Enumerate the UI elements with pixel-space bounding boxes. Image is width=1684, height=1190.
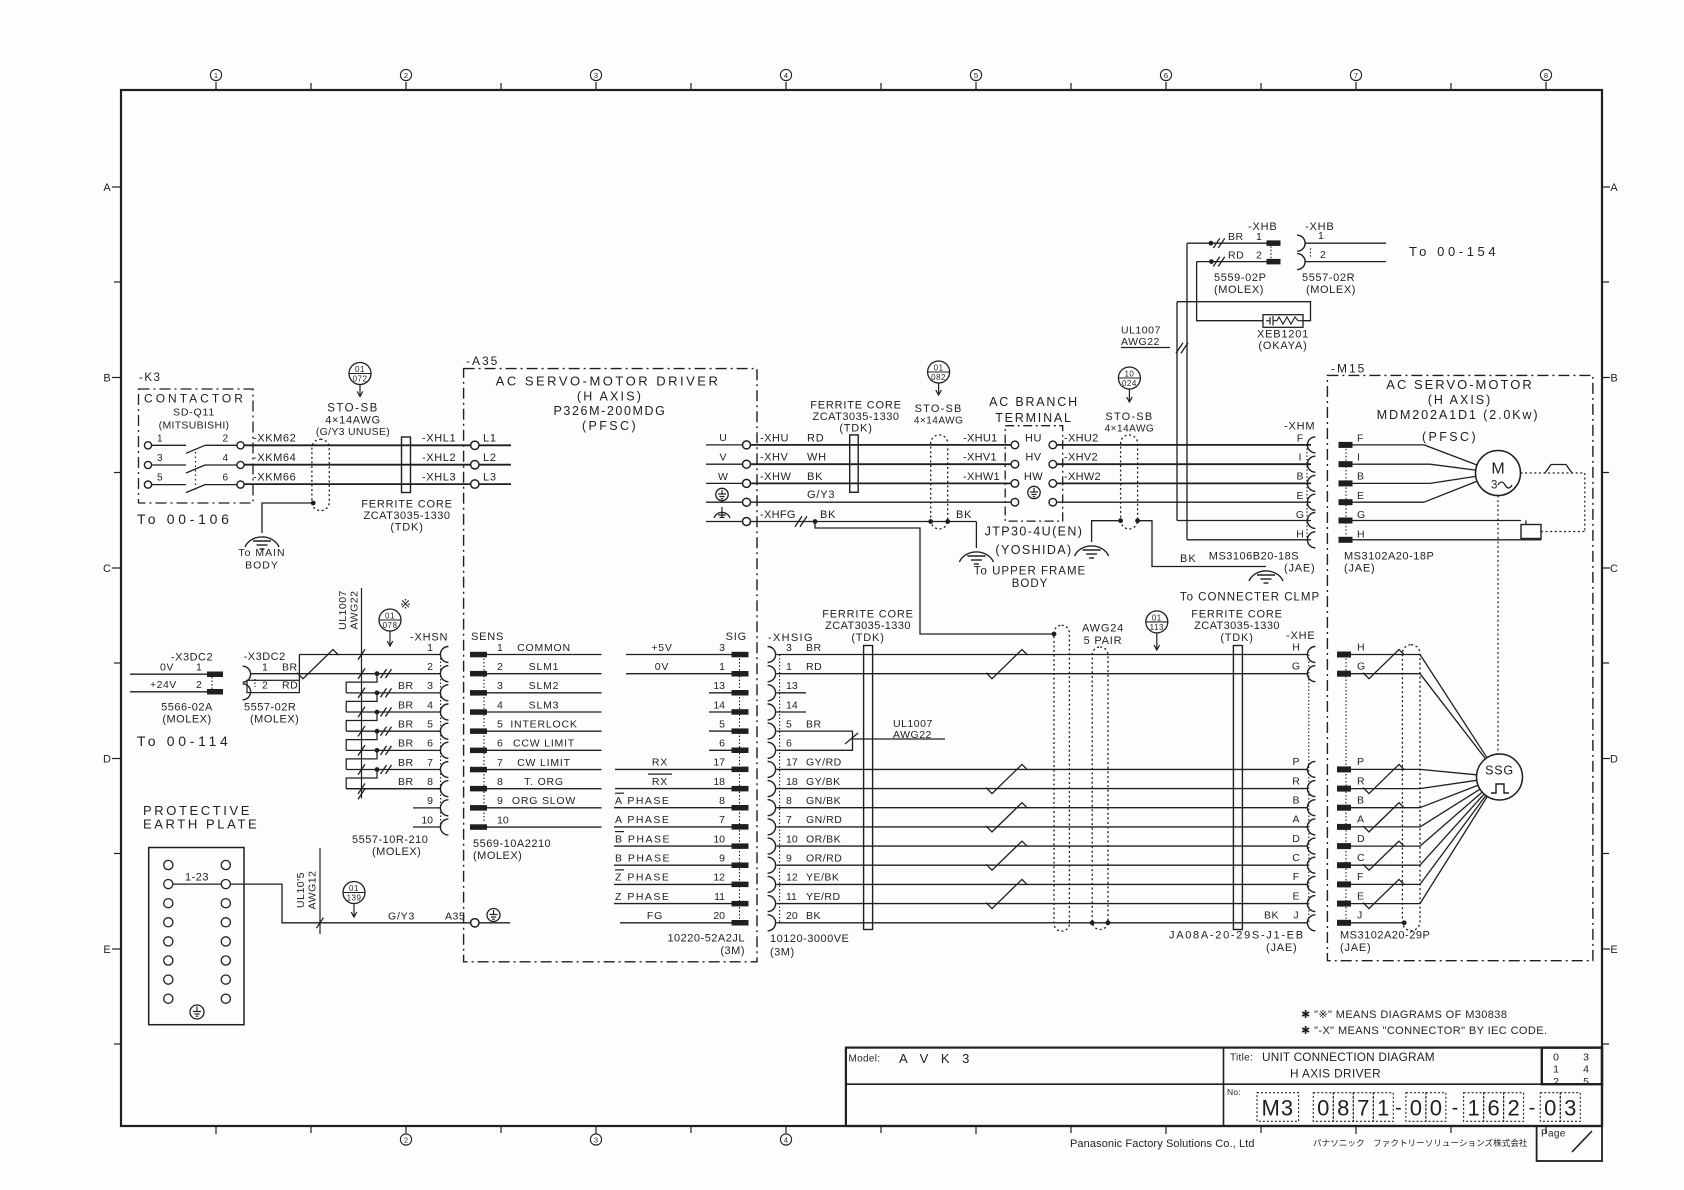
svg-text:5557-10R-210: 5557-10R-210 bbox=[352, 834, 428, 846]
svg-text:14: 14 bbox=[786, 699, 798, 711]
svg-text:7: 7 bbox=[719, 814, 725, 826]
svg-text:11: 11 bbox=[786, 891, 797, 903]
svg-text:Z PHASE: Z PHASE bbox=[615, 872, 670, 884]
svg-text:AWG22: AWG22 bbox=[349, 591, 361, 630]
svg-text:-XHW2: -XHW2 bbox=[1064, 471, 1101, 483]
svg-text:(MOLEX): (MOLEX) bbox=[372, 846, 421, 858]
svg-text:6: 6 bbox=[719, 738, 725, 750]
svg-text:RD: RD bbox=[1228, 249, 1244, 261]
svg-text:5557-02R: 5557-02R bbox=[1302, 272, 1355, 284]
svg-text:C: C bbox=[1292, 852, 1300, 864]
svg-text:E: E bbox=[103, 944, 110, 956]
svg-text:BR: BR bbox=[398, 680, 414, 692]
svg-text:A V K 3: A V K 3 bbox=[899, 1051, 974, 1066]
svg-text:BK: BK bbox=[820, 509, 836, 521]
svg-text:(YOSHIDA): (YOSHIDA) bbox=[995, 543, 1072, 557]
svg-text:※: ※ bbox=[400, 597, 411, 612]
svg-text:BK: BK bbox=[956, 509, 972, 521]
svg-text:10: 10 bbox=[421, 814, 433, 826]
svg-text:2: 2 bbox=[404, 71, 408, 80]
svg-text:1: 1 bbox=[1467, 1095, 1479, 1120]
svg-text:H: H bbox=[1357, 528, 1365, 540]
svg-text:3: 3 bbox=[786, 642, 792, 654]
svg-text:E: E bbox=[1292, 890, 1299, 902]
svg-text:8: 8 bbox=[719, 795, 725, 807]
svg-text:G: G bbox=[1292, 661, 1300, 673]
svg-text:3: 3 bbox=[497, 680, 503, 692]
svg-text:-XKM64: -XKM64 bbox=[253, 452, 296, 464]
svg-text:-XHU2: -XHU2 bbox=[1064, 432, 1099, 444]
svg-text:P: P bbox=[1357, 756, 1364, 768]
svg-text:024: 024 bbox=[1122, 379, 1137, 388]
svg-text:9: 9 bbox=[497, 795, 503, 807]
svg-text:BR: BR bbox=[398, 719, 414, 731]
svg-text:1: 1 bbox=[157, 433, 163, 444]
svg-text:UL1007: UL1007 bbox=[1121, 324, 1161, 336]
svg-text:17: 17 bbox=[713, 757, 725, 769]
svg-text:AC SERVO-MOTOR DRIVER: AC SERVO-MOTOR DRIVER bbox=[496, 374, 721, 389]
svg-text:-XKM62: -XKM62 bbox=[253, 433, 296, 445]
svg-text:14: 14 bbox=[713, 699, 725, 711]
svg-text:17: 17 bbox=[786, 757, 798, 769]
svg-text:B: B bbox=[1357, 795, 1364, 807]
svg-text:TERMINAL: TERMINAL bbox=[995, 411, 1073, 425]
svg-text:5566-02A: 5566-02A bbox=[161, 702, 213, 714]
svg-text:-XHM: -XHM bbox=[1284, 421, 1315, 433]
svg-text:J: J bbox=[1357, 910, 1362, 922]
svg-text:ORG SLOW: ORG SLOW bbox=[512, 795, 576, 807]
svg-text:H: H bbox=[1292, 641, 1300, 653]
svg-text:B PHASE: B PHASE bbox=[615, 833, 671, 845]
svg-text:BR: BR bbox=[1228, 231, 1244, 243]
svg-text:BK: BK bbox=[1264, 910, 1279, 922]
svg-text:R: R bbox=[1357, 775, 1365, 787]
svg-text:ZCAT3035-1330: ZCAT3035-1330 bbox=[363, 510, 450, 522]
svg-text:2: 2 bbox=[1507, 1095, 1519, 1120]
svg-text:8: 8 bbox=[1337, 1095, 1349, 1120]
svg-text:7: 7 bbox=[1354, 71, 1358, 80]
svg-text:G: G bbox=[1357, 661, 1365, 673]
svg-text:OR/RD: OR/RD bbox=[806, 853, 842, 865]
svg-text:4: 4 bbox=[497, 699, 503, 711]
svg-text:4: 4 bbox=[784, 1136, 788, 1145]
svg-text:5557-02R: 5557-02R bbox=[244, 702, 296, 714]
svg-text:-XHFG: -XHFG bbox=[760, 509, 796, 521]
svg-text:A35: A35 bbox=[445, 910, 465, 922]
svg-text:082: 082 bbox=[931, 373, 946, 382]
svg-text:+24V: +24V bbox=[150, 679, 177, 691]
svg-text:AWG12: AWG12 bbox=[307, 871, 319, 910]
svg-text:BK: BK bbox=[807, 471, 823, 483]
svg-text:0V: 0V bbox=[655, 661, 669, 673]
svg-text:T. ORG: T. ORG bbox=[524, 776, 564, 788]
svg-text:9: 9 bbox=[719, 853, 725, 865]
svg-text:W: W bbox=[718, 471, 728, 483]
svg-text:10: 10 bbox=[786, 833, 798, 845]
svg-text:5: 5 bbox=[719, 718, 725, 730]
svg-text:P: P bbox=[1292, 756, 1299, 768]
svg-text:0V: 0V bbox=[160, 661, 174, 673]
svg-text:-XHV: -XHV bbox=[760, 452, 788, 464]
svg-text:RD: RD bbox=[807, 432, 825, 444]
svg-text:(MOLEX): (MOLEX) bbox=[162, 714, 211, 726]
svg-text:L2: L2 bbox=[483, 452, 497, 464]
svg-text:-XHB: -XHB bbox=[1248, 221, 1277, 233]
svg-text:0: 0 bbox=[1410, 1095, 1422, 1120]
svg-text:5 PAIR: 5 PAIR bbox=[1084, 635, 1123, 647]
svg-text:B: B bbox=[103, 373, 110, 385]
svg-text:(H AXIS): (H AXIS) bbox=[577, 390, 643, 404]
svg-text:3: 3 bbox=[719, 642, 725, 654]
svg-text:GY/RD: GY/RD bbox=[806, 757, 842, 769]
svg-text:UL1007: UL1007 bbox=[337, 590, 349, 630]
svg-text:YE/BK: YE/BK bbox=[806, 872, 839, 884]
svg-text:E: E bbox=[1357, 890, 1364, 902]
svg-text:8: 8 bbox=[786, 795, 792, 807]
svg-text:MS3102A20-18P: MS3102A20-18P bbox=[1344, 551, 1434, 563]
svg-text:UNIT CONNECTION DIAGRAM: UNIT CONNECTION DIAGRAM bbox=[1262, 1050, 1435, 1064]
svg-text:20: 20 bbox=[713, 910, 725, 922]
svg-text:3: 3 bbox=[1583, 1051, 1589, 1063]
svg-text:078: 078 bbox=[383, 621, 398, 630]
svg-text:D: D bbox=[1610, 754, 1618, 766]
svg-text:A: A bbox=[1357, 814, 1364, 826]
svg-text:6: 6 bbox=[786, 738, 792, 750]
svg-text:STO-SB: STO-SB bbox=[915, 403, 963, 415]
svg-text:9: 9 bbox=[427, 795, 433, 807]
svg-text:STO-SB: STO-SB bbox=[1105, 411, 1153, 423]
svg-text:(H AXIS): (H AXIS) bbox=[1428, 393, 1493, 407]
svg-text:(3M): (3M) bbox=[770, 947, 795, 959]
svg-text:5: 5 bbox=[497, 719, 503, 731]
svg-text:-: - bbox=[1452, 1097, 1459, 1119]
svg-text:J: J bbox=[1293, 910, 1298, 922]
svg-text:(MOLEX): (MOLEX) bbox=[1214, 284, 1264, 296]
svg-text:4: 4 bbox=[427, 699, 433, 711]
svg-text:1: 1 bbox=[196, 661, 202, 673]
svg-text:EARTH PLATE: EARTH PLATE bbox=[143, 817, 259, 832]
svg-text:JA08A-20-29S-J1-EB: JA08A-20-29S-J1-EB bbox=[1169, 930, 1305, 942]
svg-text:3: 3 bbox=[1491, 480, 1497, 492]
svg-text:FERRITE CORE: FERRITE CORE bbox=[810, 400, 902, 412]
svg-text:1: 1 bbox=[497, 642, 503, 654]
svg-text:6: 6 bbox=[497, 738, 503, 750]
svg-text:4: 4 bbox=[222, 453, 228, 464]
svg-text:G: G bbox=[1357, 509, 1365, 521]
svg-text:2: 2 bbox=[1256, 249, 1262, 261]
svg-text:B: B bbox=[1292, 795, 1299, 807]
svg-text:10: 10 bbox=[497, 814, 509, 826]
svg-text:HV: HV bbox=[1025, 452, 1041, 464]
svg-text:YE/RD: YE/RD bbox=[806, 891, 841, 903]
svg-text:139: 139 bbox=[347, 893, 362, 902]
svg-text:2: 2 bbox=[404, 1136, 408, 1145]
svg-text:A PHASE: A PHASE bbox=[615, 814, 670, 826]
svg-text:D: D bbox=[103, 754, 111, 766]
svg-text:GN/BK: GN/BK bbox=[806, 795, 841, 807]
svg-text:AWG22: AWG22 bbox=[893, 729, 932, 741]
svg-text:A: A bbox=[103, 182, 111, 194]
svg-text:SLM2: SLM2 bbox=[529, 680, 560, 692]
svg-text:WH: WH bbox=[807, 452, 827, 464]
svg-text:ZCAT3035-1330: ZCAT3035-1330 bbox=[825, 620, 911, 632]
svg-text:18: 18 bbox=[713, 776, 725, 788]
svg-text:+5V: +5V bbox=[651, 642, 672, 654]
svg-text:7: 7 bbox=[786, 814, 792, 826]
svg-text:20: 20 bbox=[786, 910, 798, 922]
svg-text:7: 7 bbox=[427, 757, 433, 769]
svg-text:11: 11 bbox=[714, 891, 725, 903]
svg-text:1-23: 1-23 bbox=[185, 872, 209, 884]
svg-text:2: 2 bbox=[222, 433, 228, 444]
svg-text:AWG22: AWG22 bbox=[1121, 336, 1160, 348]
svg-text:9: 9 bbox=[786, 853, 792, 865]
svg-text:C: C bbox=[103, 563, 111, 575]
svg-text:SIG: SIG bbox=[726, 631, 747, 643]
svg-text:(TDK): (TDK) bbox=[1220, 632, 1253, 644]
svg-text:RD: RD bbox=[282, 679, 298, 691]
svg-text:-XHL1: -XHL1 bbox=[422, 433, 456, 445]
svg-text:(MOLEX): (MOLEX) bbox=[1306, 284, 1356, 296]
svg-text:(TDK): (TDK) bbox=[839, 423, 872, 435]
svg-text:HU: HU bbox=[1025, 432, 1042, 444]
svg-text:6: 6 bbox=[427, 738, 433, 750]
svg-text:0: 0 bbox=[1430, 1095, 1442, 1120]
svg-text:✱ "※" MEANS DIAGRAMS OF M30838: ✱ "※" MEANS DIAGRAMS OF M30838 bbox=[1301, 1009, 1507, 1021]
svg-text:-M15: -M15 bbox=[1331, 361, 1366, 375]
svg-text:(TDK): (TDK) bbox=[851, 632, 884, 644]
svg-text:-XHW1: -XHW1 bbox=[963, 471, 1000, 483]
svg-text:5: 5 bbox=[786, 718, 792, 730]
svg-text:BR: BR bbox=[398, 757, 414, 769]
svg-text:1: 1 bbox=[1377, 1095, 1389, 1120]
svg-text:072: 072 bbox=[353, 374, 368, 383]
svg-text:-XHL3: -XHL3 bbox=[422, 472, 456, 484]
svg-text:To 00-114: To 00-114 bbox=[137, 733, 232, 749]
svg-text:7: 7 bbox=[1357, 1095, 1369, 1120]
svg-text:1: 1 bbox=[719, 661, 725, 673]
svg-text:G/Y3: G/Y3 bbox=[807, 489, 835, 501]
svg-text:-XHW: -XHW bbox=[760, 471, 791, 483]
svg-text:To MAIN: To MAIN bbox=[238, 547, 285, 559]
svg-text:10: 10 bbox=[713, 833, 725, 845]
svg-text:1: 1 bbox=[1256, 231, 1262, 243]
svg-text:D: D bbox=[1292, 833, 1300, 845]
svg-text:SSG: SSG bbox=[1485, 764, 1514, 778]
svg-text:8: 8 bbox=[427, 776, 433, 788]
svg-text:OR/BK: OR/BK bbox=[806, 833, 841, 845]
svg-text:(PFSC): (PFSC) bbox=[582, 419, 638, 433]
svg-text:01: 01 bbox=[1152, 613, 1162, 622]
svg-text:(JAE): (JAE) bbox=[1266, 942, 1298, 954]
svg-text:10: 10 bbox=[1124, 369, 1134, 378]
svg-text:M: M bbox=[1491, 460, 1504, 477]
svg-text:(MOLEX): (MOLEX) bbox=[473, 850, 522, 862]
svg-text:JTP30-4U(EN): JTP30-4U(EN) bbox=[985, 525, 1084, 539]
svg-text:COMMON: COMMON bbox=[517, 642, 571, 654]
svg-text:0: 0 bbox=[1553, 1051, 1559, 1063]
svg-text:RX: RX bbox=[652, 757, 668, 769]
svg-text:BR: BR bbox=[806, 642, 822, 654]
svg-text:L3: L3 bbox=[483, 472, 497, 484]
svg-text:H AXIS DRIVER: H AXIS DRIVER bbox=[1290, 1067, 1381, 1081]
svg-text:I: I bbox=[1357, 452, 1360, 464]
svg-text:To UPPER FRAME: To UPPER FRAME bbox=[974, 566, 1086, 578]
svg-text:5: 5 bbox=[427, 719, 433, 731]
svg-text:E: E bbox=[1296, 490, 1303, 502]
svg-text:F: F bbox=[1297, 432, 1303, 444]
svg-text:1: 1 bbox=[1318, 230, 1324, 242]
svg-text:V: V bbox=[719, 452, 726, 464]
svg-text:-A35: -A35 bbox=[466, 354, 499, 368]
svg-text:01: 01 bbox=[349, 884, 359, 893]
svg-text:RD: RD bbox=[806, 661, 822, 673]
svg-text:To 00-106: To 00-106 bbox=[137, 511, 233, 527]
svg-text:BR: BR bbox=[398, 738, 414, 750]
svg-text:F: F bbox=[1357, 871, 1363, 883]
svg-text:0: 0 bbox=[1544, 1095, 1556, 1120]
svg-text:✱ "-X" MEANS "CONNECTOR" BY IE: ✱ "-X" MEANS "CONNECTOR" BY IEC CODE. bbox=[1301, 1025, 1547, 1037]
svg-text:2: 2 bbox=[427, 661, 433, 673]
svg-text:B: B bbox=[1296, 471, 1303, 483]
svg-text:UL10'5: UL10'5 bbox=[295, 872, 307, 908]
svg-text:E: E bbox=[1357, 490, 1364, 502]
svg-text:M3: M3 bbox=[1262, 1095, 1295, 1120]
svg-text:R: R bbox=[1292, 775, 1300, 787]
svg-text:3: 3 bbox=[594, 71, 598, 80]
svg-text:3: 3 bbox=[157, 453, 163, 464]
svg-text:To 00-154: To 00-154 bbox=[1409, 244, 1499, 259]
svg-text:7: 7 bbox=[497, 757, 503, 769]
svg-text:A: A bbox=[1610, 182, 1618, 194]
svg-text:8: 8 bbox=[1544, 71, 1548, 80]
svg-text:BR: BR bbox=[398, 699, 414, 711]
svg-text:C: C bbox=[1357, 852, 1365, 864]
svg-text:1: 1 bbox=[1553, 1064, 1559, 1076]
svg-text:13: 13 bbox=[786, 680, 798, 692]
svg-text:4: 4 bbox=[784, 71, 788, 80]
svg-text:8: 8 bbox=[497, 776, 503, 788]
svg-text:RX: RX bbox=[652, 776, 668, 788]
svg-text:G/Y3: G/Y3 bbox=[388, 910, 415, 922]
svg-text:STO-SB: STO-SB bbox=[327, 403, 379, 415]
svg-text:01: 01 bbox=[934, 363, 944, 372]
svg-text:1: 1 bbox=[262, 661, 268, 673]
svg-text:(JAE): (JAE) bbox=[1284, 563, 1316, 575]
svg-text:3: 3 bbox=[1564, 1095, 1576, 1120]
svg-text:AC BRANCH: AC BRANCH bbox=[989, 395, 1079, 409]
svg-text:GY/BK: GY/BK bbox=[806, 776, 841, 788]
svg-text:FERRITE CORE: FERRITE CORE bbox=[361, 499, 453, 511]
svg-text:(G/Y3 UNUSE): (G/Y3 UNUSE) bbox=[316, 426, 390, 438]
svg-text:(TDK): (TDK) bbox=[390, 522, 423, 534]
svg-text:-XHV2: -XHV2 bbox=[1064, 452, 1098, 464]
svg-text:12: 12 bbox=[713, 872, 725, 884]
svg-text:2: 2 bbox=[497, 661, 503, 673]
svg-text:(PFSC): (PFSC) bbox=[1422, 430, 1478, 444]
svg-text:XEB1201: XEB1201 bbox=[1257, 329, 1309, 341]
svg-text:パナソニック ファクトリーソリューションズ株式会社: パナソニック ファクトリーソリューションズ株式会社 bbox=[1313, 1137, 1528, 1148]
svg-text:-K3: -K3 bbox=[139, 372, 161, 384]
svg-text:B PHASE: B PHASE bbox=[615, 853, 671, 865]
svg-text:D: D bbox=[1357, 833, 1365, 845]
svg-text:-XHU: -XHU bbox=[760, 432, 789, 444]
svg-text:-: - bbox=[1395, 1097, 1402, 1119]
svg-text:01: 01 bbox=[355, 365, 365, 374]
svg-text:(OKAYA): (OKAYA) bbox=[1258, 340, 1307, 352]
svg-text:-XHV1: -XHV1 bbox=[963, 452, 997, 464]
svg-text:-XHL2: -XHL2 bbox=[422, 452, 456, 464]
svg-text:No:: No: bbox=[1227, 1087, 1241, 1097]
svg-text:BR: BR bbox=[282, 661, 298, 673]
svg-text:1: 1 bbox=[214, 71, 218, 80]
svg-text:-: - bbox=[1529, 1097, 1536, 1119]
svg-text:Z PHASE: Z PHASE bbox=[615, 891, 670, 903]
svg-text:2: 2 bbox=[1320, 249, 1326, 261]
svg-text:18: 18 bbox=[786, 776, 798, 788]
svg-text:5559-02P: 5559-02P bbox=[1214, 272, 1267, 284]
svg-text:2: 2 bbox=[196, 679, 202, 691]
svg-text:6: 6 bbox=[222, 473, 228, 484]
svg-text:5569-10A2210: 5569-10A2210 bbox=[473, 838, 551, 850]
svg-text:Page: Page bbox=[1541, 1129, 1566, 1140]
svg-text:-XHE: -XHE bbox=[1286, 630, 1315, 642]
svg-text:(MITSUBISHI): (MITSUBISHI) bbox=[159, 419, 230, 431]
svg-text:4: 4 bbox=[1583, 1064, 1589, 1076]
svg-text:0: 0 bbox=[1317, 1095, 1329, 1120]
svg-text:5: 5 bbox=[1583, 1076, 1589, 1088]
svg-text:U: U bbox=[719, 432, 727, 444]
svg-text:CONTACTOR: CONTACTOR bbox=[144, 391, 246, 405]
svg-text:INTERLOCK: INTERLOCK bbox=[510, 719, 577, 731]
svg-text:CCW LIMIT: CCW LIMIT bbox=[513, 738, 575, 750]
svg-text:To CONNECTER CLMP: To CONNECTER CLMP bbox=[1180, 592, 1320, 604]
svg-text:BR: BR bbox=[398, 776, 414, 788]
svg-text:FERRITE CORE: FERRITE CORE bbox=[1191, 609, 1283, 621]
svg-text:SD-Q11: SD-Q11 bbox=[173, 406, 215, 418]
svg-text:(JAE): (JAE) bbox=[1344, 563, 1376, 575]
svg-text:12: 12 bbox=[786, 872, 798, 884]
svg-text:113: 113 bbox=[1150, 623, 1164, 632]
svg-text:4×14AWG: 4×14AWG bbox=[1105, 424, 1155, 435]
svg-text:AWG24: AWG24 bbox=[1082, 623, 1124, 635]
svg-text:BODY: BODY bbox=[245, 559, 279, 571]
svg-text:C: C bbox=[1610, 563, 1618, 575]
svg-text:A PHASE: A PHASE bbox=[615, 795, 670, 807]
svg-text:B: B bbox=[1357, 471, 1364, 483]
svg-text:F: F bbox=[1357, 432, 1363, 444]
svg-text:SLM1: SLM1 bbox=[529, 661, 560, 673]
svg-text:3: 3 bbox=[594, 1136, 598, 1145]
svg-text:CW LIMIT: CW LIMIT bbox=[517, 757, 571, 769]
svg-text:6: 6 bbox=[1487, 1095, 1499, 1120]
svg-text:4×14AWG: 4×14AWG bbox=[325, 415, 381, 427]
svg-text:3: 3 bbox=[427, 680, 433, 692]
svg-text:10120-3000VE: 10120-3000VE bbox=[770, 933, 849, 945]
svg-text:A: A bbox=[1292, 814, 1299, 826]
svg-text:MDM202A1D1 (2.0Kw): MDM202A1D1 (2.0Kw) bbox=[1377, 408, 1540, 422]
svg-text:(3M): (3M) bbox=[720, 945, 745, 957]
svg-text:I: I bbox=[1299, 452, 1302, 464]
svg-text:BK: BK bbox=[1180, 553, 1197, 565]
svg-text:2: 2 bbox=[1553, 1076, 1559, 1088]
svg-text:(MOLEX): (MOLEX) bbox=[250, 714, 299, 726]
svg-text:P326M-200MDG: P326M-200MDG bbox=[554, 404, 667, 418]
svg-text:ZCAT3035-1330: ZCAT3035-1330 bbox=[1194, 620, 1280, 632]
svg-text:MS3106B20-18S: MS3106B20-18S bbox=[1209, 551, 1299, 563]
svg-text:1: 1 bbox=[786, 661, 792, 673]
svg-text:(JAE): (JAE) bbox=[1340, 942, 1372, 954]
